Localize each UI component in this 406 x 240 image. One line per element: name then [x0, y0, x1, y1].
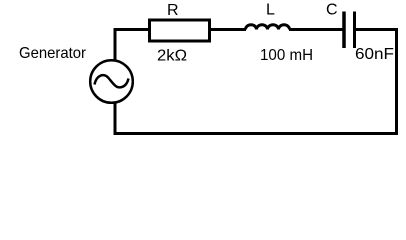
svg-text:2kΩ: 2kΩ	[157, 48, 187, 65]
svg-text:C: C	[326, 2, 338, 19]
svg-text:60nF: 60nF	[355, 46, 394, 63]
svg-text:R: R	[167, 2, 179, 19]
svg-text:Generator: Generator	[19, 45, 87, 62]
svg-text:100 mH: 100 mH	[260, 47, 313, 64]
svg-text:L: L	[266, 2, 275, 19]
